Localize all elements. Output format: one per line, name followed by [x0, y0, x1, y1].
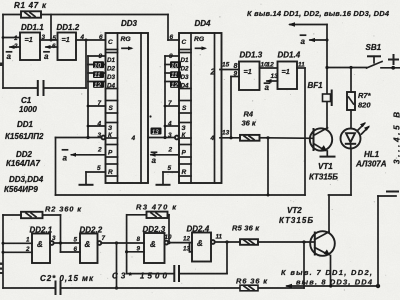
gate DD2.2 NAND: [74, 226, 106, 264]
wire R3 left drop to pin9 and C3: [125, 215, 144, 274]
node junction R1 DD1.1-out: [50, 39, 53, 42]
resistor R7: [347, 68, 372, 111]
capacitor C1: [3, 81, 86, 114]
scan noise overlay: [0, 0, 1, 1]
gate DD2.3 NAND: [137, 225, 173, 263]
node a-bar arrow into DD1.1 pin2: [7, 45, 21, 61]
node a-bar arrow into DD1.2 pin6: [44, 45, 58, 61]
led HL1 AL307A: [341, 110, 387, 169]
gate DD2.4 NAND: [183, 225, 223, 262]
buzzer BF1: [308, 81, 332, 105]
capacitor C3: [112, 242, 227, 281]
node parts list DD2: [6, 150, 41, 168]
wire bottom left vertical rail: [2, 215, 4, 288]
gate DD1.4 XOR: [271, 51, 306, 90]
gate DD1.3 XOR: [239, 51, 263, 91]
wire DD3 K input with bubble: [86, 136, 105, 140]
gate DD2.1 NAND: [25, 226, 56, 264]
node a-bar arrow into DD1.4 pin13: [265, 79, 278, 92]
wire bottom minus rail with arrow: [285, 284, 380, 288]
IC DD4 shift register: [179, 19, 222, 183]
wire DD3 data input bus: [87, 56, 106, 138]
node DD3 pin numbers: [97, 34, 104, 172]
wire DD2.3 out to DD2.4 inputs: [168, 243, 192, 252]
node scan marks left edge: [0, 63, 152, 275]
node parts list DD1: [5, 120, 44, 141]
wire DD1.3 out to DD1.4: [260, 62, 278, 69]
gate DD1.1 XOR: [13, 23, 46, 60]
IC DD3 shift register: [106, 19, 149, 183]
wire DD4 pin2 out to DD1.3 pin8: [210, 61, 240, 77]
capacitor C2: [3, 274, 94, 294]
wire DD2.1 inputs from left rail: [2, 242, 33, 254]
wire DD1.1 out to DD1.2 in: [40, 39, 58, 41]
resistor R3: [127, 203, 177, 219]
node parts list DD3 DD4: [4, 175, 44, 194]
wire VT2 collector up to HL1 net: [328, 195, 330, 232]
wire top clock line to DD4 C: [41, 14, 168, 16]
wire R1 left: [3, 14, 21, 16]
wire C1 right plate riser: [85, 40, 87, 88]
transistor VT1 KT315B: [309, 128, 338, 182]
gate DD1.2 XOR: [52, 23, 85, 60]
wire minus vertical rail: [378, 196, 396, 286]
wire DD2.1 out to DD2.2 both inputs: [54, 241, 80, 252]
node DD3 boxed pins 10 11 12: [93, 61, 104, 89]
node junction C1 riser on DD1.2 out: [85, 39, 88, 42]
wire riser pin8 net to bottom rail: [115, 243, 118, 290]
wire supply arrow left: [288, 22, 327, 26]
wire DD3 K net left and down to rail: [56, 138, 89, 196]
wire long rail under registers: [56, 194, 306, 196]
wire DD3 R pin common stub: [80, 172, 106, 185]
node plus terminal: [389, 55, 398, 64]
wire R6 riser to base net: [303, 242, 305, 288]
wire plus riser vertical: [326, 25, 328, 129]
wire R2 right drop to DD2.1 out: [60, 215, 62, 252]
node minus terminal: [387, 191, 398, 193]
node DD4 pin numbers: [167, 34, 174, 172]
node ground text K vyv 7: [281, 268, 373, 287]
resistor R5: [232, 224, 260, 245]
wire VT2 emitter down to minus rail: [330, 256, 332, 287]
wire left vertical rail top: [2, 15, 4, 89]
node a-bar arrow from DD3 P pin: [63, 150, 106, 163]
resistor R2: [3, 205, 82, 219]
wire plus rail: [325, 66, 366, 69]
wire DD4 R pin common stub: [157, 172, 180, 185]
switch SB1 push button: [366, 43, 400, 70]
wire DD1.4 out pin11 down to rail: [297, 68, 305, 195]
wire R1 to DD1.1 output drop: [50, 15, 52, 41]
wire DD1.1 pin1 input: [3, 37, 20, 39]
wire R4 out with drop to rail: [260, 136, 270, 196]
resistor R4: [240, 110, 260, 141]
node a-bar arrow from DD4 P pin: [150, 152, 180, 165]
wire clock drop into DD4 C: [168, 15, 179, 41]
transistor VT2 KT315B: [279, 206, 335, 256]
wire VT1 base from R4 net: [268, 137, 313, 140]
wire DD3 out4 to DD4 K with boxed 13: [148, 128, 165, 138]
node DD4 boxed pins 10 11 12: [170, 61, 181, 89]
wire R3 right drop to DD2.3 out: [167, 215, 170, 244]
wire DD2.4 out to R5: [215, 240, 240, 243]
wire DD4 K input with bubble: [163, 136, 178, 140]
node junction left rail pin1: [2, 36, 5, 39]
wire DD1.2 output to DD3 C pin: [76, 39, 106, 41]
wire DD4 pin13 output to R4: [220, 130, 240, 140]
wire DD4 data input bus: [164, 56, 179, 138]
wire R5 to VT2 base: [258, 240, 314, 243]
wire DD1.3 pin9 riser from R4 net: [231, 71, 239, 138]
wire bottom rail C2 to VT2 base riser: [61, 287, 304, 289]
node a arrow at riser: [301, 35, 329, 46]
wire HL1 cathode down to VT2 collector net: [329, 149, 352, 195]
resistor R6: [236, 277, 268, 291]
wire DD2.2 out to DD2.3 pin8: [101, 241, 144, 244]
resistor R1: [14, 1, 47, 18]
